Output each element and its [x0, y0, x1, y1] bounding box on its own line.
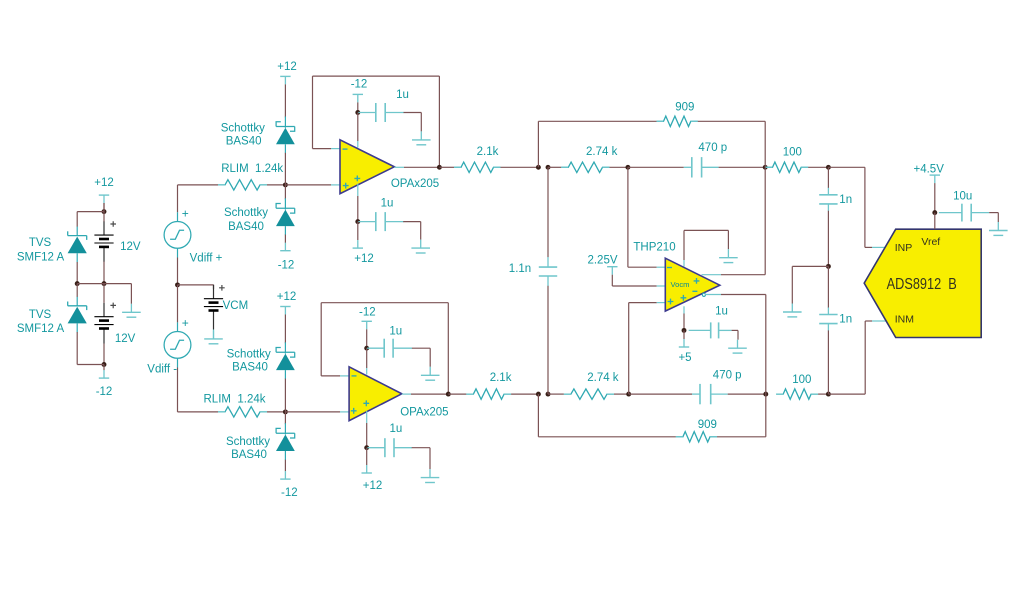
- wire schottky D5 to node: [284, 379, 286, 412]
- node Vref: [932, 210, 937, 215]
- wire U1 V- pin: [357, 113, 359, 142]
- svg-text:+4.5V: +4.5V: [914, 163, 945, 175]
- node source mid: [175, 282, 180, 287]
- wire node B down to THP -in: [627, 167, 629, 267]
- wire mid node to battery V2: [103, 284, 105, 303]
- feedback U1 left vertical: [312, 76, 314, 149]
- wire TVS D1 to mid node: [76, 262, 78, 284]
- source VG1 Vdiff+: [164, 222, 191, 249]
- lead THP out lower: [705, 294, 721, 296]
- wire node B to C 470p: [628, 166, 684, 168]
- feedback U2 top rail: [321, 302, 448, 304]
- wire bottom node: [77, 364, 104, 366]
- svg-text:1u: 1u: [381, 198, 394, 210]
- op-amp U1 OPAx205: [340, 140, 394, 194]
- wire node A2 down: [547, 167, 549, 257]
- wire THP out lower: [721, 294, 766, 296]
- wire node E to ground branch: [792, 265, 828, 267]
- svg-text:THP210: THP210: [633, 242, 675, 254]
- capacitor C5 470p (top): [684, 166, 692, 168]
- node C bottom: [763, 392, 768, 397]
- ground C1: [420, 131, 422, 140]
- battery VCM plus: [219, 285, 225, 291]
- wire battery V1 bottom to mid node: [103, 262, 105, 284]
- resistor R2 2.1k (bottom): [466, 389, 511, 399]
- svg-text:2.25V: 2.25V: [587, 255, 617, 267]
- power terminal +12: [99, 194, 109, 196]
- power terminal -12 clamp top: [280, 250, 290, 252]
- wire 909 bottom right vertical: [765, 394, 767, 437]
- svg-text:+5: +5: [678, 352, 691, 364]
- svg-text:10u: 10u: [953, 190, 972, 202]
- wire node A3 down: [537, 394, 539, 437]
- marker U1 +in: [343, 183, 349, 189]
- wire R3 to node B: [610, 166, 628, 168]
- wire schottky D3 to node: [284, 153, 286, 185]
- wire schottky D4 to -12: [284, 235, 286, 243]
- ground C3: [429, 367, 431, 376]
- wire 909 top right vertical: [764, 121, 766, 167]
- wire U2 out to R 2.1k: [448, 393, 466, 395]
- wire +12 to schottky D5: [284, 315, 286, 344]
- wire to VCM: [178, 284, 214, 286]
- capacitor C4 1u: [367, 447, 385, 449]
- wire node to opamp U2 +in: [285, 411, 340, 413]
- svg-text:-12: -12: [278, 260, 295, 272]
- ground node E: [791, 304, 793, 313]
- node A4: [546, 392, 551, 397]
- svg-text:1u: 1u: [715, 306, 728, 318]
- wire C1 to ground corner: [404, 112, 422, 114]
- ground VCM: [213, 330, 215, 339]
- wire to INM: [865, 320, 872, 322]
- power terminal +12 clamp bottom: [280, 306, 290, 308]
- marker THP inverted output: [702, 293, 705, 296]
- wire THP V- to ground: [727, 230, 729, 249]
- power terminal +5: [679, 346, 689, 348]
- wire +4.5V down: [934, 183, 936, 213]
- wire C3 to ground corner: [412, 347, 430, 349]
- feedback U2 left vertical: [320, 303, 322, 376]
- svg-text:2.74 k: 2.74 k: [586, 146, 618, 158]
- wire 909 top rail right: [698, 120, 765, 122]
- wire node to schottky D4: [284, 185, 286, 199]
- fda U3 THP210: [665, 258, 720, 311]
- svg-text:909: 909: [675, 102, 694, 114]
- lead U2 -in: [340, 375, 353, 377]
- power terminal +12 U2: [362, 472, 372, 474]
- wire VG2 to RLIM2: [178, 411, 219, 413]
- schottky diode D4 BAS40: [276, 204, 295, 214]
- capacitor C11 10u: [939, 212, 962, 214]
- svg-text:SMF12 A: SMF12 A: [17, 323, 65, 335]
- node E: [826, 264, 831, 269]
- svg-text:909: 909: [698, 419, 717, 431]
- svg-text:1n: 1n: [839, 194, 852, 206]
- schottky diode D5 BAS40: [276, 348, 295, 358]
- wire mid rail: [77, 283, 131, 285]
- marker THP +in: [668, 299, 674, 305]
- lead THP V+ inside: [683, 306, 685, 313]
- svg-text:470 p: 470 p: [698, 142, 727, 154]
- lead ADC INM: [872, 320, 886, 322]
- feedback U2 right vertical: [447, 303, 449, 394]
- marker U2 -in: [352, 375, 357, 377]
- wire VCM to ground: [213, 330, 215, 339]
- schottky diode D6 BAS40: [276, 428, 295, 438]
- wire C11 ground vertical: [997, 213, 999, 222]
- ground supply mid: [130, 304, 132, 313]
- marker U2 V+: [363, 400, 369, 406]
- wire C10 to node D2: [827, 330, 829, 394]
- wire U2 V+ pin: [366, 423, 368, 448]
- svg-text:VCM: VCM: [223, 300, 249, 312]
- wire R1 to node: [501, 166, 539, 168]
- lead THP Vocm: [657, 285, 667, 287]
- power terminal +12 U1: [353, 247, 363, 249]
- node A3: [536, 392, 541, 397]
- marker U1 V+: [354, 176, 360, 182]
- wire THP out upper vertical: [764, 167, 766, 274]
- svg-text:1u: 1u: [390, 423, 403, 435]
- svg-text:Schottky: Schottky: [224, 207, 268, 219]
- lead U2 output: [402, 393, 411, 395]
- wire THP V+ pin: [683, 314, 685, 331]
- wire C2 ground vertical: [420, 222, 422, 240]
- wire R8 to node D2: [818, 393, 828, 395]
- wire 909 bottom rail right: [717, 436, 766, 438]
- capacitor C6 470p (bottom): [692, 393, 700, 395]
- wire VG1 bottom: [177, 258, 179, 285]
- wire -12 to U1 V- node: [357, 102, 359, 112]
- wire node A4 to R 2.74k: [548, 393, 564, 395]
- wire VG2 bottom corner: [177, 368, 179, 412]
- wire to INP: [865, 246, 872, 248]
- node U1 V-: [355, 110, 360, 115]
- wire node B2 up to THP +in: [628, 303, 630, 395]
- schottky diode D3 BAS40: [276, 122, 295, 132]
- wire 909 bottom rail left: [538, 436, 676, 438]
- svg-text:2.1k: 2.1k: [477, 146, 499, 158]
- svg-text:Vdiff +: Vdiff +: [190, 253, 223, 265]
- lead U2 +in: [340, 411, 353, 413]
- wire U1 out: [404, 166, 439, 168]
- wire node to TVS D1: [77, 211, 104, 213]
- wire node D to corner: [828, 166, 865, 168]
- feedback U1 to -in: [313, 148, 332, 150]
- power terminal -12: [99, 377, 109, 379]
- svg-text:100: 100: [783, 147, 802, 159]
- wire C4 ground vertical: [429, 448, 431, 469]
- svg-text:2.1k: 2.1k: [490, 372, 512, 384]
- wire C5 to node C: [719, 166, 766, 168]
- wire C8 ground vertical: [737, 330, 739, 339]
- node U2 out: [446, 392, 451, 397]
- wire corner up to INM: [864, 321, 866, 394]
- wire C3 ground vertical: [429, 348, 431, 367]
- svg-text:RLIM 1.24k: RLIM 1.24k: [204, 394, 266, 406]
- capacitor C8 1u: [689, 329, 711, 331]
- node mid: [102, 281, 107, 286]
- battery V1 plus: [110, 221, 116, 227]
- power terminal +12 clamp top: [280, 75, 290, 77]
- svg-text:BAS40: BAS40: [232, 361, 268, 373]
- wire C2 to ground corner: [403, 221, 421, 223]
- node D top: [826, 165, 831, 170]
- wire Vref pin: [934, 213, 936, 230]
- lead THP out upper: [702, 274, 722, 276]
- resistor RLIM1 1.24k: [218, 180, 267, 190]
- resistor R7 100 (top): [766, 162, 809, 172]
- svg-text:-12: -12: [359, 306, 376, 318]
- node supply top: [102, 209, 107, 214]
- wire TVS D2 top: [76, 284, 78, 297]
- power terminal -12 U2: [362, 320, 372, 322]
- wire to THP -in: [628, 266, 657, 268]
- wire R2 to node: [511, 393, 538, 395]
- wire C8 to ground corner: [732, 329, 738, 331]
- svg-text:100: 100: [792, 374, 811, 386]
- lead U1 -in: [331, 148, 344, 150]
- capacitor C10 1n: [827, 308, 829, 315]
- node C top: [763, 165, 768, 170]
- wire node B2 to C 470p: [629, 393, 692, 395]
- wire node D2 to corner: [828, 393, 865, 395]
- svg-text:TVS: TVS: [29, 309, 52, 321]
- resistor R8 100 (bottom): [776, 389, 818, 399]
- wire to THP +in: [629, 302, 657, 304]
- wire corner down to INP: [864, 167, 866, 247]
- capacitor C3 1u: [367, 347, 384, 349]
- svg-text:BAS40: BAS40: [226, 135, 262, 147]
- svg-text:Vdiff -: Vdiff -: [147, 363, 177, 375]
- svg-text:+: +: [182, 316, 189, 330]
- wire node D down: [827, 167, 829, 188]
- wire THP +5: [683, 330, 685, 339]
- marker U2 +in: [351, 408, 357, 414]
- lead U1 output: [394, 166, 404, 168]
- svg-text:-12: -12: [281, 487, 298, 499]
- marker THP out+: [694, 278, 700, 284]
- lead U2 V- inside: [366, 368, 368, 375]
- wire C1 ground vertical: [420, 113, 422, 132]
- wire node E down: [827, 266, 829, 307]
- capacitor C2 1u: [358, 221, 376, 223]
- svg-text:Vref: Vref: [921, 236, 940, 248]
- svg-text:1n: 1n: [839, 314, 852, 326]
- wire 2.25V down: [611, 275, 613, 286]
- resistor R1 2.1k (top): [454, 162, 501, 172]
- svg-text:-12: -12: [96, 386, 113, 398]
- resistor R5 909 (top): [657, 116, 698, 126]
- wire +12 to schottky D3: [284, 84, 286, 117]
- wire VCM top: [213, 285, 215, 289]
- marker THP V+: [681, 295, 687, 301]
- node B top: [625, 165, 630, 170]
- feedback U1 top rail: [313, 75, 440, 77]
- ground C11: [997, 222, 999, 231]
- wire C11 to ground corner: [989, 212, 998, 214]
- svg-text:INP: INP: [895, 242, 913, 254]
- capacitor C1 1u: [358, 112, 376, 114]
- wire U1 out to R 2.1k: [439, 166, 454, 168]
- marker U1 -in: [343, 148, 348, 150]
- marker THP -in: [667, 267, 672, 269]
- ground THP V-: [727, 249, 729, 258]
- wire RLIM1 to node: [267, 184, 285, 186]
- feedback U2 to -in: [321, 375, 340, 377]
- wire U2 out: [411, 393, 448, 395]
- node U1 out: [437, 165, 442, 170]
- resistor R3 2.74k (top): [561, 162, 609, 172]
- svg-text:+12: +12: [277, 291, 297, 303]
- wire U2 V- pin: [366, 348, 368, 368]
- svg-text:Schottky: Schottky: [221, 122, 265, 134]
- battery V1 12V: [103, 221, 105, 235]
- battery V2 12V: [103, 303, 105, 317]
- wire ground branch down: [791, 266, 793, 303]
- feedback U1 right vertical: [438, 76, 440, 167]
- node A2: [546, 165, 551, 170]
- wire THP out upper: [721, 274, 765, 276]
- wire battery V2 to bottom node: [103, 344, 105, 365]
- op-amp U2 OPAx205: [349, 367, 402, 421]
- wire node to schottky D6: [284, 412, 286, 424]
- wire THP out lower vertical: [765, 295, 767, 395]
- node B bottom: [626, 392, 631, 397]
- wire THP V- rail: [684, 229, 728, 231]
- node in+ top: [283, 182, 288, 187]
- capacitor C7 1.1n: [547, 257, 549, 267]
- wire C9 to node E: [827, 211, 829, 267]
- battery V2 plus: [110, 303, 116, 309]
- wire U1 V+ pin: [357, 196, 359, 222]
- node U2 V-: [364, 346, 369, 351]
- svg-text:+12: +12: [94, 177, 114, 189]
- wire to -12: [103, 365, 105, 371]
- svg-text:TVS: TVS: [29, 237, 52, 249]
- lead U1 V+ inside: [357, 184, 359, 196]
- node THP V+: [682, 328, 687, 333]
- wire mid to ground: [130, 284, 132, 304]
- wire -12 to U2 V- node: [366, 329, 368, 348]
- power terminal +4.5V: [930, 174, 940, 176]
- lead THP +in: [657, 302, 669, 304]
- wire 2.25V to Vocm: [612, 285, 656, 287]
- wire node to VG2: [177, 285, 179, 323]
- wire THP V- pin: [683, 230, 685, 260]
- svg-text:12V: 12V: [115, 333, 136, 345]
- svg-text:+: +: [182, 207, 189, 221]
- wire U2 V+ to +12: [366, 448, 368, 465]
- TVS diode D1 SMF12A: [68, 231, 87, 240]
- svg-text:12V: 12V: [120, 241, 141, 253]
- adc U4 ADS8912B: [864, 229, 981, 337]
- lead THP V- inside: [683, 260, 685, 267]
- wire node to opamp U1 +in: [285, 184, 331, 186]
- svg-text:2.74 k: 2.74 k: [587, 372, 619, 384]
- resistor RLIM2 1.24k: [218, 407, 267, 417]
- lead U2 V+ inside: [366, 411, 368, 423]
- svg-text:SMF12 A: SMF12 A: [17, 252, 65, 264]
- wire down to TVS D1: [76, 212, 78, 227]
- lead ADC INP: [872, 246, 886, 248]
- node D bottom: [826, 392, 831, 397]
- ground C4: [429, 469, 431, 478]
- ground C2: [420, 240, 422, 249]
- svg-text:OPAx205: OPAx205: [400, 406, 448, 418]
- svg-text:Schottky: Schottky: [226, 436, 270, 448]
- wire U1 V+ to +12: [357, 222, 359, 241]
- svg-text:ADS8912 B: ADS8912 B: [887, 276, 957, 293]
- svg-text:OPAx205: OPAx205: [391, 178, 439, 190]
- svg-text:Vocm: Vocm: [671, 280, 690, 289]
- svg-text:+12: +12: [277, 61, 297, 73]
- svg-text:BAS40: BAS40: [228, 221, 264, 233]
- capacitor C9 1n: [827, 188, 829, 195]
- battery VCM: [213, 285, 215, 299]
- node U1 V+: [355, 219, 360, 224]
- wire C6 to node C2: [728, 393, 766, 395]
- node supply bottom: [102, 362, 107, 367]
- svg-text:1.1n: 1.1n: [509, 263, 531, 275]
- power terminal 2.25V: [607, 266, 617, 268]
- wire node A1 up: [537, 121, 539, 167]
- svg-text:INM: INM: [895, 313, 914, 325]
- node A1: [536, 165, 541, 170]
- svg-text:1u: 1u: [396, 89, 409, 101]
- svg-text:-12: -12: [351, 78, 368, 90]
- TVS diode D2 SMF12A: [68, 302, 87, 311]
- wire 909 top rail left: [538, 120, 656, 122]
- wire +12 to node: [103, 203, 105, 212]
- node U2 V+: [364, 445, 369, 450]
- lead THP -in: [657, 266, 669, 268]
- svg-text:BAS40: BAS40: [231, 449, 267, 461]
- wire C4 to ground corner: [412, 447, 430, 449]
- wire C7 to node A4: [547, 286, 549, 394]
- wire R4 to node B2: [614, 393, 629, 395]
- svg-text:Schottky: Schottky: [227, 348, 271, 360]
- node mid left: [75, 281, 80, 286]
- svg-text:+12: +12: [354, 253, 374, 265]
- ground C8: [737, 340, 739, 349]
- svg-text:470 p: 470 p: [713, 369, 742, 381]
- svg-text:+12: +12: [363, 480, 383, 492]
- resistor R6 909 (bottom): [676, 432, 717, 442]
- svg-text:1u: 1u: [389, 325, 402, 337]
- wire node A2 to R 2.74k: [548, 166, 561, 168]
- lead U1 +in: [331, 184, 344, 186]
- wire TVS D2 to bottom node: [76, 332, 78, 365]
- power terminal -12 U1: [353, 93, 363, 95]
- node in+ bottom: [283, 409, 288, 414]
- power terminal -12 clamp bottom: [280, 478, 290, 480]
- resistor R4 2.74k (bottom): [564, 389, 614, 399]
- lead U1 V- inside: [357, 141, 359, 148]
- marker THP out-: [692, 290, 697, 292]
- wire schottky D6 to -12: [284, 460, 286, 472]
- wire VG1 to RLIM1: [178, 184, 219, 186]
- svg-text:RLIM 1.24k: RLIM 1.24k: [221, 163, 283, 175]
- wire VG1 top corner: [177, 185, 179, 212]
- wire R7 to node D: [808, 166, 828, 168]
- wire RLIM2 to node: [267, 411, 285, 413]
- wire battery V1 top: [103, 203, 105, 222]
- source VG2 Vdiff-: [164, 332, 191, 359]
